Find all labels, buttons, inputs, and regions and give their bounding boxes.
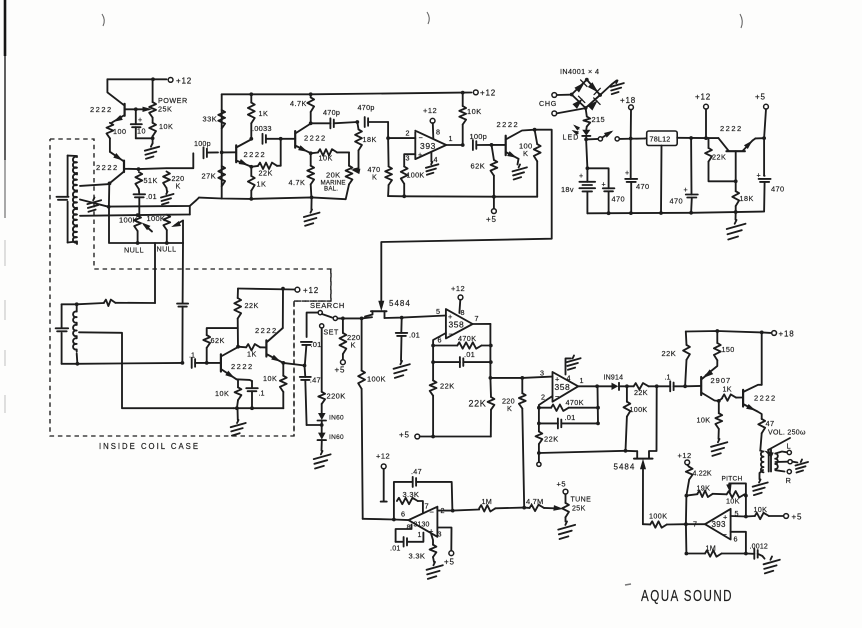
- svg-text:VOL. 250ω: VOL. 250ω: [768, 430, 806, 437]
- svg-text:K: K: [507, 404, 512, 413]
- svg-text:100p: 100p: [470, 132, 488, 141]
- wire coil B bottom to .1: [77, 362, 182, 365]
- resistor 22K (U2): [430, 362, 455, 436]
- svg-text:2222: 2222: [90, 105, 113, 114]
- ground (coil amp): [231, 408, 246, 435]
- svg-text:3: 3: [540, 369, 544, 378]
- svg-text:22K: 22K: [662, 349, 677, 358]
- svg-text:470: 470: [612, 195, 626, 204]
- svg-text:+5: +5: [399, 431, 410, 440]
- junction Q7 base node: [683, 384, 687, 388]
- wire 22K to Q3 collector: [237, 319, 239, 347]
- svg-text:−: −: [419, 133, 423, 142]
- junction Q5 collector node: [533, 128, 537, 132]
- svg-text:470: 470: [771, 185, 785, 194]
- svg-text:.0012: .0012: [750, 544, 769, 551]
- junction 22K det right: [655, 384, 659, 388]
- capacitor 100p #2: [470, 132, 492, 150]
- VOL arrow: [766, 438, 791, 457]
- resistor 22K (U3): [536, 423, 559, 453]
- resistor 3.3K (U5 fb): [397, 490, 429, 513]
- resistor 62K (feedback): [203, 328, 237, 363]
- capacitor .47: [411, 467, 422, 487]
- capacitor (coil A left): [57, 197, 69, 200]
- svg-text:1: 1: [449, 134, 453, 143]
- svg-text:10K: 10K: [159, 122, 173, 131]
- svg-text:10: 10: [137, 127, 146, 136]
- svg-text:51K: 51K: [144, 176, 158, 185]
- junction Q7 collector node: [717, 399, 721, 403]
- op-amp U5 3130: [401, 506, 445, 539]
- svg-text:18v: 18v: [561, 185, 574, 194]
- svg-text:10K: 10K: [319, 154, 333, 163]
- osc bottom rail: [199, 196, 346, 201]
- resistor 47: [758, 412, 775, 451]
- +18 rail: [686, 329, 771, 334]
- resistor 1M (VCO): [479, 497, 524, 511]
- LED rays: [573, 125, 579, 134]
- resistor 215: [583, 108, 605, 130]
- resistor 1M (U4 fb): [686, 544, 746, 557]
- svg-text:25K: 25K: [158, 105, 172, 114]
- capacitor .47 (search): [300, 366, 321, 426]
- resistor 10K (Q3 emitter): [215, 380, 241, 408]
- svg-text:3: 3: [438, 530, 442, 539]
- wire 22K to base node: [280, 139, 282, 166]
- svg-text:22K: 22K: [634, 388, 648, 397]
- label CHG: [539, 99, 557, 108]
- svg-text:470K: 470K: [458, 334, 476, 343]
- wire null rail riser: [189, 206, 191, 215]
- diode LED: [582, 130, 590, 140]
- capacitor .01 (search): [301, 340, 322, 366]
- svg-text:SEARCH: SEARCH: [310, 301, 345, 310]
- FET Q10 5484: [614, 451, 653, 524]
- junction coil B top: [75, 302, 79, 306]
- NULL pot2 wiper: [173, 221, 184, 227]
- wire null2 to cap: [182, 243, 184, 304]
- junction 51K top: [137, 167, 141, 171]
- junction 19K left: [685, 494, 689, 498]
- op-amp U3 358: [540, 369, 584, 402]
- U4 pin5 wire: [731, 515, 746, 518]
- svg-text:78L12: 78L12: [650, 135, 671, 144]
- svg-text:IN4001 × 4: IN4001 × 4: [560, 67, 599, 76]
- resistor 10K (Q7): [697, 401, 723, 439]
- svg-text:8: 8: [436, 128, 440, 137]
- svg-text:1K: 1K: [259, 109, 269, 118]
- bridge to ground wire: [600, 81, 617, 96]
- switch S1: [598, 131, 619, 141]
- junction 1M right: [744, 552, 748, 556]
- junction Q6 emitter node: [762, 136, 766, 140]
- transistor Q3o 2222: [281, 131, 327, 148]
- FET rail wire: [362, 316, 446, 319]
- svg-text:220K: 220K: [327, 392, 346, 401]
- junction Q3o emitter: [309, 151, 313, 155]
- wire Q6 emitter: [756, 137, 765, 139]
- capacitor .01 (U2 fb): [433, 346, 491, 368]
- label INSIDE COIL CASE: [99, 441, 200, 451]
- ground (10K Q7): [711, 439, 727, 456]
- svg-text:R: R: [786, 476, 792, 485]
- terminal +12 (3130): [376, 452, 390, 502]
- ground (osc rail): [304, 197, 320, 225]
- potentiometer NULL 100K #2: [147, 214, 171, 243]
- svg-text:1M: 1M: [482, 497, 493, 506]
- resistor 100K (audio in): [643, 512, 686, 528]
- junction integrator node: [522, 506, 526, 510]
- junction Q4 collector rail: [281, 287, 285, 291]
- svg-text:22K: 22K: [469, 399, 487, 409]
- svg-text:.1: .1: [259, 389, 265, 398]
- FET right leg wire: [649, 386, 657, 458]
- junction coil B bottom: [76, 362, 80, 366]
- coil L2 loop left: [62, 304, 78, 364]
- U1 pin4 ground: [426, 152, 439, 175]
- svg-text:−: −: [449, 330, 454, 339]
- capacitor 470p #1: [311, 108, 358, 128]
- U1 pin3 wire: [404, 154, 415, 166]
- transformer T1: [760, 450, 778, 473]
- svg-text:358: 358: [555, 382, 571, 392]
- svg-text:.1: .1: [665, 373, 671, 382]
- svg-text:IN60: IN60: [329, 415, 344, 422]
- coil L2 (receive): [73, 304, 77, 364]
- svg-text:+5: +5: [444, 558, 455, 567]
- svg-text:25K: 25K: [572, 506, 586, 513]
- svg-text:+12: +12: [678, 451, 692, 460]
- ground (FET cap): [394, 361, 410, 378]
- junction U3 out: [595, 384, 599, 388]
- svg-text:358: 358: [449, 320, 465, 330]
- FET Q9 5484: [365, 299, 411, 318]
- transistor Q6 2222: [718, 124, 755, 181]
- transistor Q2 2222: [96, 161, 124, 172]
- 78L12 ground pin: [660, 146, 663, 214]
- junction +18 node: [629, 137, 633, 141]
- junction null pot1 top: [136, 213, 140, 217]
- wire null1 to coil B: [154, 243, 156, 303]
- osc left vertical: [221, 94, 223, 198]
- junction 1M left: [685, 552, 689, 556]
- terminal +12 (reg): [695, 93, 711, 139]
- svg-text:K: K: [176, 182, 181, 191]
- junction battery top: [586, 166, 590, 170]
- resistor 1K (osc1): [248, 94, 268, 139]
- svg-text:−: −: [555, 392, 560, 401]
- U2 pin8 +12: [451, 284, 465, 313]
- svg-text:1K: 1K: [723, 385, 732, 394]
- svg-text:2222: 2222: [754, 394, 777, 403]
- svg-text:2: 2: [541, 393, 545, 402]
- resistor 1K (output): [719, 385, 743, 401]
- switch SEARCH: [310, 301, 345, 321]
- wire U2 out to U3: [490, 377, 552, 378]
- resistor 22K (detector): [627, 383, 657, 397]
- transistor Q7 2907: [685, 370, 731, 401]
- capacitor 470p #2: [358, 103, 389, 127]
- bridge rectifier IN4001: [570, 78, 602, 110]
- resistor 4.7K (osc2): [289, 153, 315, 197]
- Q3o emitter: [295, 146, 310, 153]
- svg-text:470p: 470p: [358, 103, 375, 112]
- resistor 100K (detector): [624, 386, 648, 451]
- junction pin2 node: [386, 136, 390, 140]
- svg-text:27K: 27K: [202, 172, 217, 181]
- svg-text:1K: 1K: [257, 180, 267, 189]
- ground (reg rail): [727, 212, 746, 240]
- jack common: [775, 460, 808, 473]
- svg-text:+: +: [448, 312, 453, 321]
- svg-text:3130: 3130: [414, 522, 430, 529]
- svg-text:+: +: [757, 171, 761, 180]
- svg-text:470: 470: [636, 182, 650, 191]
- coil B mid tap: [79, 332, 233, 408]
- dashed boundary (search box): [294, 269, 331, 436]
- title AQUA SOUND: [641, 588, 733, 605]
- svg-text:INSIDE COIL CASE: INSIDE COIL CASE: [99, 441, 200, 451]
- svg-text:+: +: [579, 171, 583, 180]
- resistor 150: [706, 331, 735, 376]
- capacitor 10 electrolytic: [131, 109, 153, 138]
- ground rail (coil amp): [233, 406, 283, 410]
- svg-text:4.22K: 4.22K: [693, 471, 712, 478]
- svg-text:2222: 2222: [720, 124, 743, 133]
- svg-text:LED: LED: [563, 135, 580, 142]
- potentiometer TUNE 25K: [562, 494, 591, 522]
- resistor 22K (Q6 base): [705, 138, 736, 181]
- svg-text:K: K: [372, 173, 377, 182]
- svg-text:.47: .47: [310, 376, 321, 385]
- junction U2 out node: [489, 376, 493, 380]
- page left edge artifact: [4, 0, 7, 413]
- svg-text:7: 7: [425, 502, 429, 511]
- svg-text:.01: .01: [146, 192, 157, 201]
- wire Q1 collector: [107, 79, 124, 105]
- U3 output: [578, 385, 597, 387]
- svg-text:6: 6: [401, 510, 405, 519]
- resistor 51K: [135, 172, 157, 189]
- wire pin2: [388, 129, 415, 139]
- junction .01 node: [400, 316, 404, 320]
- terminal CHG top: [552, 93, 570, 98]
- junction Q1 base node: [134, 107, 138, 111]
- transistor Q1 2222: [90, 104, 136, 116]
- U5 pin6 wire: [394, 519, 409, 522]
- capacitor 470 (battery): [587, 168, 625, 213]
- junction .01 right (U2): [489, 360, 493, 364]
- svg-text:+5: +5: [335, 366, 346, 375]
- svg-text:22K: 22K: [712, 153, 726, 162]
- long wire osc to search FET: [381, 130, 551, 301]
- Q4 collector: [266, 289, 283, 343]
- junction pin5 node: [744, 515, 748, 519]
- svg-text:+12: +12: [423, 106, 437, 115]
- svg-text:10K: 10K: [263, 374, 277, 383]
- svg-text:NULL: NULL: [124, 246, 144, 255]
- svg-text:.01: .01: [390, 544, 401, 553]
- junction FET drain wire: [624, 449, 628, 453]
- junction +12 drop: [704, 136, 708, 140]
- op-amp U4 393: [693, 509, 739, 544]
- Q8 collector wire: [761, 332, 763, 384]
- feedback frame (.47): [394, 482, 453, 511]
- junction IN60 node: [307, 423, 324, 427]
- svg-text:+: +: [555, 375, 560, 384]
- junction Q5 base node: [490, 143, 494, 147]
- terminal +18 (output): [772, 330, 795, 339]
- svg-text:−: −: [430, 508, 435, 517]
- coil A tap1 wire: [80, 184, 109, 186]
- svg-text:2222: 2222: [304, 134, 327, 143]
- junction FET rail left: [360, 317, 364, 321]
- resistor 22K (Q4 load): [234, 289, 258, 319]
- U4 pin6 wire: [731, 532, 746, 554]
- transistor Q4 2222: [255, 326, 278, 357]
- svg-text:6: 6: [734, 535, 738, 544]
- capacitor (coil B left): [56, 328, 69, 331]
- junction 470p mid: [355, 120, 359, 124]
- switch SET: [320, 324, 339, 392]
- svg-text:1: 1: [418, 532, 422, 539]
- diode IN914: [597, 375, 627, 391]
- resistor 1K (interstage): [238, 344, 266, 358]
- junction null bottoms: [136, 241, 169, 245]
- svg-text:TUNE: TUNE: [571, 497, 592, 504]
- ground (tune): [558, 522, 575, 540]
- svg-text:L: L: [787, 442, 791, 451]
- U1 pin8 +12: [423, 106, 437, 139]
- svg-text:.01: .01: [464, 350, 475, 359]
- U5 pin3 wire: [437, 528, 451, 551]
- null pots frame: [109, 207, 183, 243]
- svg-text:PITCH: PITCH: [722, 476, 743, 483]
- U2 pin6 wire: [433, 333, 446, 346]
- svg-text:22K: 22K: [245, 301, 259, 310]
- wire collector node to 100p: [139, 153, 194, 169]
- svg-text:10K: 10K: [754, 505, 768, 514]
- svg-text:47: 47: [766, 419, 775, 428]
- wire emitter node down: [108, 183, 110, 206]
- U1 output wire: [446, 144, 463, 146]
- svg-text:+18: +18: [779, 330, 795, 339]
- capacitor .1 (Q3 emitter): [246, 381, 264, 408]
- svg-text:+5: +5: [557, 480, 567, 489]
- wire 470p to pin2: [387, 122, 389, 138]
- capacitor .01 (Q2): [134, 189, 157, 215]
- svg-text:3.3K: 3.3K: [409, 552, 426, 561]
- terminal +18: [620, 96, 636, 139]
- svg-text:+12: +12: [695, 93, 711, 102]
- svg-text:7: 7: [475, 314, 479, 323]
- junction 100p node: [220, 151, 224, 155]
- junction .0033 left: [249, 137, 253, 141]
- ground (bridge): [611, 81, 624, 95]
- U5 pin8/1 comp cap .01: [390, 525, 423, 553]
- svg-text:+12: +12: [176, 77, 192, 86]
- terminal +12 (osc): [473, 89, 496, 98]
- resistor 4.7M: [524, 497, 562, 511]
- svg-text:215: 215: [592, 115, 606, 124]
- svg-text:.47: .47: [411, 467, 422, 476]
- svg-text:393: 393: [420, 141, 436, 151]
- ground (3.3K): [427, 562, 443, 579]
- resistor 10K (U1 out): [459, 93, 481, 145]
- capacitor .1 (detector): [657, 373, 685, 392]
- svg-text:IN914: IN914: [604, 375, 624, 382]
- page mark 1: [102, 14, 104, 26]
- junction detector node: [625, 384, 629, 388]
- resistor 10K (Q4 emitter): [263, 363, 287, 408]
- resistor 18K (reg): [732, 181, 753, 212]
- svg-text:+: +: [625, 168, 629, 177]
- junction 470K left: [431, 344, 435, 348]
- page mark 4: [625, 584, 631, 585]
- capacitor 470 (+5): [757, 138, 785, 211]
- svg-text:150: 150: [722, 345, 735, 354]
- wire 100K to pin6: [363, 518, 394, 521]
- svg-text:−: −: [723, 530, 728, 539]
- potentiometer 20K MARINE BAL: [321, 152, 353, 199]
- page mark 3: [740, 14, 742, 28]
- svg-text:100K: 100K: [630, 405, 648, 414]
- Q5 collector: [506, 130, 535, 140]
- svg-text:K: K: [523, 149, 528, 158]
- potentiometer POWER 25K: [149, 79, 187, 117]
- junction coil node: [107, 205, 111, 209]
- svg-text:100K: 100K: [407, 171, 425, 180]
- svg-text:20K: 20K: [326, 171, 341, 180]
- Q3 emitter node wire: [237, 379, 253, 381]
- capacitor .0012: [746, 544, 768, 559]
- svg-text:100: 100: [113, 127, 127, 136]
- svg-text:470K: 470K: [566, 398, 584, 407]
- svg-text:22K: 22K: [259, 169, 273, 178]
- svg-text:22K: 22K: [544, 435, 559, 444]
- wire switch to FET rail: [338, 317, 362, 321]
- svg-text:SET: SET: [324, 330, 340, 337]
- resistor 1K (osc2): [248, 167, 266, 199]
- capacitor .01 (U3 fb): [539, 408, 598, 429]
- junction U3 fb left: [537, 406, 541, 410]
- transistor Q2o 2222: [222, 145, 266, 162]
- resistor 22K (osc fb): [251, 163, 280, 178]
- junction 62K bottom: [205, 361, 209, 365]
- junction Q4 emitter node: [281, 361, 285, 365]
- capacitor .01 (FET): [396, 318, 420, 361]
- label VOL. 250: [768, 430, 806, 437]
- terminal +12 (audio): [678, 451, 692, 465]
- potentiometer NULL 100K #1: [119, 216, 141, 244]
- jack R: [775, 470, 791, 486]
- Q4 emitter: [266, 354, 283, 363]
- svg-text:2222: 2222: [96, 163, 119, 172]
- diode IN60 #2: [318, 425, 345, 451]
- resistor 22K (from +18): [662, 332, 690, 387]
- svg-text:10K: 10K: [215, 389, 229, 398]
- wire pitch to pin5: [745, 496, 747, 517]
- svg-text:4.7K: 4.7K: [290, 99, 307, 108]
- junction LED node: [584, 138, 588, 142]
- svg-text:CHG: CHG: [539, 99, 557, 108]
- svg-text:100K: 100K: [147, 214, 166, 223]
- U2 output: [473, 323, 491, 325]
- svg-text:8: 8: [461, 308, 465, 317]
- svg-text:+12: +12: [480, 89, 496, 98]
- terminal +5 (U2): [399, 431, 420, 440]
- transformer primary ground: [753, 470, 768, 495]
